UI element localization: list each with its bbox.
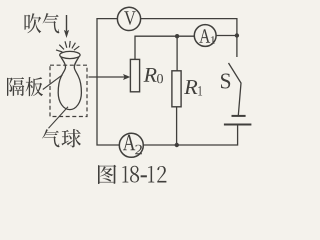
slider arrow pressing R0 <box>89 76 127 78</box>
leader line to partition <box>43 75 63 90</box>
label R1 - subscript 1 <box>198 86 202 95</box>
label 板 (partition char2) <box>26 77 43 96</box>
resistor R1 body <box>172 71 181 107</box>
voltmeter V circle <box>117 7 140 30</box>
ammeter A2 letter A <box>123 135 135 150</box>
caption digit 1 <box>148 166 154 183</box>
resistor R0 body <box>130 59 139 91</box>
wire: R1 bottom lead <box>176 107 178 145</box>
label 隔 (partition char1) <box>7 77 24 96</box>
wire: junction down to R1 top <box>176 36 178 71</box>
label 气 (balloon char1) <box>42 129 59 147</box>
ammeter A2 circle <box>119 133 143 157</box>
caption digit 1 <box>122 166 128 183</box>
label R0 - letter R <box>144 68 157 82</box>
wire: voltmeter to top-right corner down to switch <box>141 19 237 57</box>
wire: A1 right lead <box>216 35 237 37</box>
label R0 - subscript 0 <box>157 74 163 83</box>
wire: bottom rail to battery <box>143 125 237 145</box>
battery positive plate (long) <box>224 124 252 126</box>
battery negative plate (short) <box>232 115 246 117</box>
switch S lever and lower lead <box>229 63 242 116</box>
label R1 - letter R <box>184 80 197 94</box>
blow-air arrow <box>66 15 68 31</box>
ammeter A2 subscript 2 <box>135 145 142 155</box>
caption hyphen <box>141 175 147 177</box>
label 气 (air) <box>43 13 60 33</box>
node: junction right of A1 <box>235 33 239 37</box>
ammeter A1 letter A <box>199 29 210 42</box>
ammeter A1 subscript 1 <box>211 36 215 43</box>
wire: top-left corner and left vertical rail <box>97 19 119 145</box>
air rays above mouth <box>56 41 79 52</box>
wire: R0 top lead, corner, to A1 left lead <box>135 36 194 59</box>
balloon mouth rim <box>60 51 80 58</box>
label 吹 (blow) <box>24 13 41 33</box>
label S <box>221 73 230 88</box>
ammeter A1 circle <box>194 25 216 47</box>
node: junction on bottom rail <box>175 143 179 147</box>
caption digit 8 <box>130 166 139 183</box>
voltmeter letter V <box>124 11 136 25</box>
leader line to balloon <box>49 107 69 128</box>
node: junction above R1 <box>175 34 179 38</box>
caption digit 2 <box>157 166 166 183</box>
label 球 (balloon char2) <box>61 129 81 148</box>
caption 图 <box>98 165 116 184</box>
balloon body (vase) <box>58 57 81 110</box>
partition dashed box <box>50 65 87 116</box>
